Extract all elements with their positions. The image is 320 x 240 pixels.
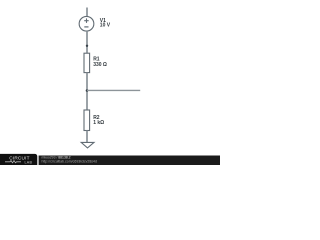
svg-text:10 V: 10 V	[100, 23, 111, 29]
resistor R1	[84, 53, 90, 72]
svg-text:330 Ω: 330 Ω	[93, 62, 107, 68]
watermark info bar	[39, 156, 224, 168]
wire R2 bottom to ground	[86, 131, 88, 143]
svg-text:http://circuitlab.com/c693k3cv: http://circuitlab.com/c693k3cv28s4d	[42, 160, 97, 164]
node dot middle junction	[86, 89, 89, 92]
voltage source V1	[79, 16, 94, 31]
wire R1 bottom to node	[86, 73, 88, 110]
watermark logo badge CircuitLab	[0, 154, 37, 167]
node dot V1/R1 junction	[86, 45, 88, 47]
svg-text:LAB: LAB	[25, 160, 33, 164]
resistor R2	[84, 110, 90, 131]
wire V1 minus to R1 top	[86, 31, 88, 53]
wire top net from V1 plus terminal	[86, 8, 88, 17]
svg-text:1 kΩ: 1 kΩ	[93, 120, 104, 126]
wire horizontal stub to the right	[87, 89, 140, 91]
ground symbol	[81, 142, 94, 148]
